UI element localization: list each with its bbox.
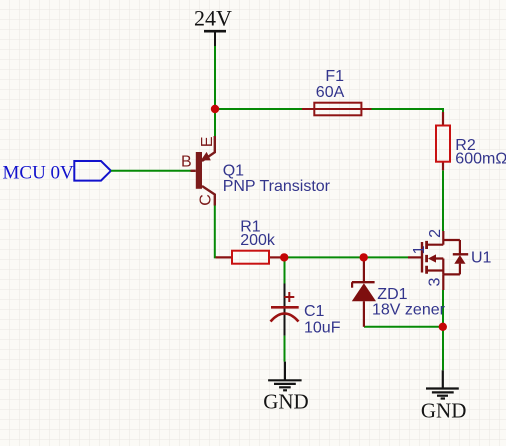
svg-text:C: C xyxy=(198,194,215,206)
svg-text:18V zener: 18V zener xyxy=(372,302,446,319)
svg-text:24V: 24V xyxy=(194,6,232,31)
svg-text:1: 1 xyxy=(411,245,428,254)
svg-text:ZD1: ZD1 xyxy=(377,286,407,303)
svg-text:Q1: Q1 xyxy=(223,162,244,179)
svg-text:2: 2 xyxy=(427,229,444,238)
svg-text:PNP Transistor: PNP Transistor xyxy=(223,178,331,195)
svg-text:E: E xyxy=(199,136,216,147)
svg-text:200k: 200k xyxy=(240,232,276,249)
svg-text:10uF: 10uF xyxy=(304,320,341,337)
svg-text:600mΩ: 600mΩ xyxy=(455,151,506,168)
svg-text:C1: C1 xyxy=(304,303,325,320)
svg-text:GND: GND xyxy=(263,390,309,414)
svg-text:F1: F1 xyxy=(325,68,344,85)
svg-text:MCU 0V: MCU 0V xyxy=(3,163,75,184)
svg-text:60A: 60A xyxy=(316,84,345,101)
svg-text:3: 3 xyxy=(426,277,443,286)
svg-text:GND: GND xyxy=(421,399,467,423)
svg-text:B: B xyxy=(181,154,192,171)
svg-text:U1: U1 xyxy=(471,250,492,267)
